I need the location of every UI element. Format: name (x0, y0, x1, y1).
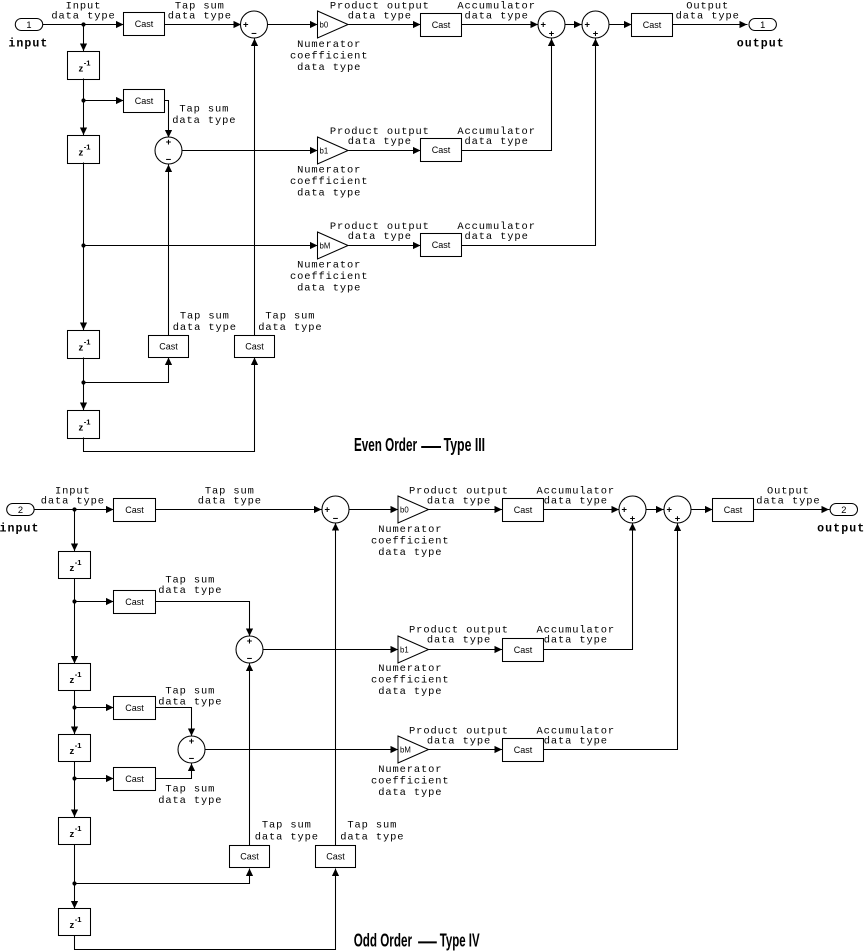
sum junction A1 accumulator (bottom) (619, 496, 646, 523)
cast block product cast b1 (bottom) (503, 639, 544, 662)
cast block bottom cast 2 (bottom) (316, 846, 356, 868)
delay block z4 (top) (z^-1) (68, 411, 100, 439)
svg-text:data type: data type (168, 11, 232, 23)
svg-text:−: − (166, 155, 172, 166)
junction tap4 (bottom) (72, 776, 76, 780)
svg-text:Tap sum: Tap sum (262, 820, 312, 832)
svg-text:data type: data type (348, 136, 412, 148)
svg-text:Cast: Cast (724, 505, 743, 515)
svg-text:data type: data type (544, 736, 608, 748)
wire S3 to bM (bottom) (206, 749, 399, 751)
wire input to cast (bottom) (35, 509, 114, 511)
svg-text:b0: b0 (400, 505, 409, 514)
gain triangle b1 (top) (318, 137, 349, 164)
sum junction S1 (bottom) (322, 496, 349, 523)
svg-text:data type: data type (756, 496, 820, 508)
delay block z1 (top) (z^-1) (68, 52, 100, 80)
svg-text:data type: data type (348, 231, 412, 243)
gain triangle bM (top) (318, 232, 349, 259)
svg-text:Tap sum: Tap sum (165, 685, 215, 697)
svg-text:-1: -1 (75, 915, 83, 924)
svg-text:-1: -1 (75, 670, 83, 679)
svg-text:+: + (675, 514, 681, 525)
sum junction S3 (bottom) (178, 736, 205, 763)
svg-text:Numerator: Numerator (297, 39, 361, 51)
delay block z2 (top) (z^-1) (68, 136, 100, 164)
svg-text:+: + (540, 20, 546, 31)
svg-text:+: + (243, 20, 249, 31)
wire z3 down (top) (83, 358, 85, 383)
svg-text:Cast: Cast (125, 703, 144, 713)
wire bM to cast (bottom) (429, 749, 503, 751)
svg-text:+: + (549, 29, 555, 40)
svg-text:+: + (593, 29, 599, 40)
wire sum2 to b1 (top) (183, 150, 318, 152)
svg-text:data type: data type (297, 282, 361, 294)
svg-text:coefficient: coefficient (371, 775, 450, 787)
cast block tap cast row2 (bottom) (114, 591, 156, 614)
svg-text:data type: data type (158, 697, 222, 709)
junction tap5 (bottom) (72, 881, 76, 885)
svg-text:Type IV: Type IV (440, 930, 480, 951)
wire b1 to cast (bottom) (429, 649, 503, 651)
delay block z3 (bottom) (z^-1) (59, 735, 91, 762)
port oval input 2 (bottom) (7, 504, 34, 516)
cast block input cast row1 (top) (124, 13, 165, 36)
wire z3 down (bottom) (74, 762, 76, 779)
svg-text:Odd Order: Odd Order (354, 930, 412, 951)
svg-text:data type: data type (51, 11, 115, 23)
wire z1 down (bottom) (74, 579, 76, 602)
wire z4 to bottom cast2 (top) (84, 358, 255, 452)
svg-text:coefficient: coefficient (290, 50, 369, 62)
wire acc2 to output cast (top) (610, 24, 632, 26)
svg-text:Cast: Cast (514, 645, 533, 655)
wire b1 cast to acc1 (top) (462, 39, 552, 151)
wire bottom cast1 up to S2 (bottom) (249, 664, 251, 846)
delay block z1 (bottom) (z^-1) (59, 552, 91, 579)
wire down to z1 (bottom) (74, 510, 76, 552)
svg-text:data type: data type (464, 231, 528, 243)
svg-text:+: + (621, 505, 627, 516)
svg-text:+: + (189, 736, 195, 747)
svg-text:data type: data type (464, 136, 528, 148)
svg-text:-1: -1 (84, 337, 92, 346)
junction input tap (top) (81, 22, 85, 26)
svg-text:Cast: Cast (514, 505, 533, 515)
sum junction A2 accumulator (top) (582, 11, 609, 38)
wire tap2 to cast (top) (84, 100, 124, 102)
svg-text:data type: data type (464, 11, 528, 23)
svg-text:1: 1 (760, 20, 765, 30)
gain triangle b0 (top) (318, 11, 349, 38)
delay block z2 (bottom) (z^-1) (59, 664, 91, 691)
wire tap3 to cast (bottom) (75, 707, 114, 709)
svg-text:data type: data type (297, 62, 361, 74)
svg-text:2: 2 (18, 505, 23, 515)
svg-text:data type: data type (198, 496, 262, 508)
cast block product cast b0 (bottom) (503, 499, 544, 522)
wire S2 to b1 (bottom) (264, 649, 399, 651)
svg-text:+: + (584, 20, 590, 31)
svg-text:b1: b1 (320, 146, 329, 155)
svg-text:output: output (817, 522, 865, 535)
wire cast to output port (top) (673, 24, 748, 26)
svg-text:data type: data type (378, 547, 442, 559)
svg-text:−: − (251, 29, 257, 40)
cast block tap cast row4 (bottom) (114, 768, 156, 791)
svg-text:Cast: Cast (432, 145, 451, 155)
svg-text:2: 2 (841, 505, 846, 515)
wire bM cast to acc2 (bottom) (544, 524, 678, 750)
junction tap3 (top) (81, 243, 85, 247)
svg-text:-1: -1 (84, 417, 92, 426)
wire bM to cast (top) (349, 245, 421, 247)
svg-text:Numerator: Numerator (378, 663, 442, 675)
svg-text:data type: data type (378, 787, 442, 799)
cast block bottom cast 2 (top) (235, 336, 275, 358)
wire cast up to S3 (bottom) (156, 764, 192, 779)
svg-text:-1: -1 (75, 824, 83, 833)
svg-text:Numerator: Numerator (378, 524, 442, 536)
wire cast to S1 (bottom) (156, 509, 322, 511)
wire S1 to b0 (bottom) (350, 509, 399, 511)
svg-text:+: + (630, 514, 636, 525)
port oval input 1 (top) (15, 19, 42, 31)
gain triangle bM (bottom) (398, 736, 429, 763)
wire bottom cast2 up to S1 (bottom) (335, 524, 337, 846)
gain triangle b1 (bottom) (398, 636, 429, 663)
svg-text:data type: data type (544, 635, 608, 647)
cast block product cast b1 (top) (421, 139, 462, 162)
wire down to z3 (bottom) (74, 708, 76, 735)
wire b1 cast to acc1 (bottom) (544, 524, 633, 650)
wire down to z2 (bottom) (74, 602, 76, 664)
delay block z3 (top) (z^-1) (68, 331, 100, 359)
cast block bottom cast 1 (top) (149, 336, 189, 358)
gain triangle b0 (bottom) (398, 496, 429, 523)
svg-text:1: 1 (26, 20, 31, 30)
svg-text:data type: data type (340, 831, 404, 843)
svg-text:+: + (247, 636, 253, 647)
wire down to z4 (bottom) (74, 779, 76, 818)
wire sum1 to b0 (top) (268, 24, 318, 26)
svg-text:data type: data type (544, 496, 608, 508)
svg-text:-1: -1 (75, 558, 83, 567)
svg-text:Cast: Cast (125, 774, 144, 784)
wire down to z5 (bottom) (74, 884, 76, 909)
svg-text:−: − (247, 654, 253, 665)
cast block product cast bM (top) (421, 234, 462, 257)
wire b0 to cast (top) (349, 24, 421, 26)
junction input tap (bottom) (72, 507, 76, 511)
svg-text:Numerator: Numerator (297, 165, 361, 177)
cast block bottom cast 1 (bottom) (230, 846, 270, 868)
svg-text:data type: data type (255, 831, 319, 843)
wire z4 down (bottom) (74, 845, 76, 884)
svg-text:data type: data type (676, 11, 740, 23)
svg-text:data type: data type (158, 795, 222, 807)
wire down to z1 (top) (83, 25, 85, 52)
svg-text:Cast: Cast (240, 852, 259, 862)
delay block z4 (bottom) (z^-1) (59, 818, 91, 845)
svg-text:output: output (737, 37, 785, 50)
svg-text:Tap sum: Tap sum (347, 820, 397, 832)
svg-text:Cast: Cast (514, 745, 533, 755)
svg-text:coefficient: coefficient (371, 674, 450, 686)
svg-text:Cast: Cast (125, 597, 144, 607)
wire tap5 to bottom cast1 (bottom) (75, 869, 250, 884)
svg-text:Tap sum: Tap sum (165, 784, 215, 796)
svg-text:Cast: Cast (245, 342, 264, 352)
svg-text:coefficient: coefficient (290, 271, 369, 283)
svg-text:+: + (324, 505, 330, 516)
junction tap3 (bottom) (72, 705, 76, 709)
svg-text:input: input (8, 37, 48, 50)
svg-text:+: + (166, 137, 172, 148)
wire bottom cast2 up to sum1 (top) (254, 39, 256, 336)
wire acc1 to acc2 (top) (566, 24, 582, 26)
wire down to z2 (top) (83, 101, 85, 136)
svg-text:b1: b1 (400, 645, 409, 654)
wire bottom cast1 up to sum2 (top) (168, 165, 170, 336)
sum junction A1 accumulator (top) (538, 11, 565, 38)
junction tap4 (top) (81, 380, 85, 384)
svg-text:Cast: Cast (159, 342, 178, 352)
wire cast down to S3 (bottom) (156, 708, 192, 737)
cast block output cast (bottom) (713, 499, 754, 522)
cast block product cast bM (bottom) (503, 739, 544, 762)
wire bM cast to acc2 (top) (462, 39, 596, 246)
wire tap4 to bottom cast1 (top) (84, 358, 169, 383)
cast block tap cast row2 (top) (124, 90, 165, 113)
wire z2 down (bottom) (74, 691, 76, 708)
svg-text:data type: data type (258, 322, 322, 334)
svg-text:−: − (333, 514, 339, 525)
wire b0 to cast (bottom) (429, 509, 503, 511)
wire tap4 to cast (bottom) (75, 778, 114, 780)
svg-text:data type: data type (427, 635, 491, 647)
svg-text:bM: bM (400, 745, 411, 754)
wire cast to sum1 (top) (165, 24, 241, 26)
svg-text:Even Order: Even Order (354, 434, 417, 455)
svg-text:-1: -1 (75, 741, 83, 750)
sum junction S1 (top) (241, 11, 268, 38)
svg-text:+: + (666, 505, 672, 516)
svg-text:coefficient: coefficient (371, 535, 450, 547)
wire acc2 to cast (bottom) (692, 509, 713, 511)
svg-text:data type: data type (378, 686, 442, 698)
svg-text:data type: data type (41, 496, 105, 508)
wire down to z3 (top) (83, 246, 85, 331)
svg-text:Tap sum: Tap sum (265, 310, 315, 322)
cast block product cast b0 (top) (421, 14, 462, 37)
wire tap2 to cast (bottom) (75, 601, 114, 603)
svg-text:Type III: Type III (444, 434, 486, 455)
svg-text:-1: -1 (84, 58, 92, 67)
svg-text:Tap sum: Tap sum (180, 310, 230, 322)
wire input to cast (43, 24, 124, 26)
svg-text:Cast: Cast (125, 505, 144, 515)
cast block output cast (top) (632, 14, 673, 37)
svg-text:input: input (0, 522, 40, 535)
wire z2 down (top) (83, 163, 85, 246)
svg-text:Cast: Cast (326, 852, 345, 862)
svg-text:Cast: Cast (643, 20, 662, 30)
wire z1 down (top) (83, 79, 85, 101)
port oval output 1 (top) (749, 19, 776, 31)
cast block tap cast row3 (bottom) (114, 697, 156, 720)
junction tap2 (top) (81, 98, 85, 102)
delay block z5 (bottom) (z^-1) (59, 909, 91, 936)
sum junction S2 (bottom) (236, 636, 263, 663)
svg-text:Numerator: Numerator (297, 260, 361, 272)
svg-text:Cast: Cast (432, 240, 451, 250)
wire cast to output port (bottom) (754, 509, 830, 511)
svg-text:data type: data type (173, 322, 237, 334)
svg-text:Cast: Cast (135, 19, 154, 29)
wire down to z4 (top) (83, 383, 85, 411)
wire z5 to bottom cast2 (bottom) (75, 869, 336, 950)
wire tap3 to bM (top) (84, 245, 318, 247)
svg-text:data type: data type (297, 187, 361, 199)
svg-text:-1: -1 (84, 142, 92, 151)
svg-text:data type: data type (158, 585, 222, 597)
wire b1 to cast (top) (349, 150, 421, 152)
sum junction S2 (top) (155, 137, 182, 164)
wire cast down to S2 (bottom) (156, 602, 250, 637)
svg-text:−: − (189, 754, 195, 765)
wire acc1 to acc2 (bottom) (647, 509, 664, 511)
junction tap2 (bottom) (72, 599, 76, 603)
svg-text:data type: data type (427, 736, 491, 748)
svg-text:Tap sum: Tap sum (179, 103, 229, 115)
svg-text:coefficient: coefficient (290, 176, 369, 188)
svg-text:data type: data type (348, 11, 412, 23)
wire cast to acc1 (top) (462, 24, 539, 26)
sum junction A2 accumulator (bottom) (664, 496, 691, 523)
svg-text:data type: data type (427, 496, 491, 508)
cast block input cast row1 (bottom) (114, 499, 156, 522)
svg-text:b0: b0 (320, 20, 329, 29)
svg-text:bM: bM (320, 241, 331, 250)
svg-text:data type: data type (172, 115, 236, 127)
svg-text:Numerator: Numerator (378, 764, 442, 776)
wire cast down to sum2 (top) (165, 101, 169, 138)
port oval output 2 (bottom) (830, 504, 857, 516)
wire cast to acc1 (bottom) (544, 509, 620, 511)
svg-text:Cast: Cast (135, 96, 154, 106)
svg-text:Cast: Cast (432, 20, 451, 30)
